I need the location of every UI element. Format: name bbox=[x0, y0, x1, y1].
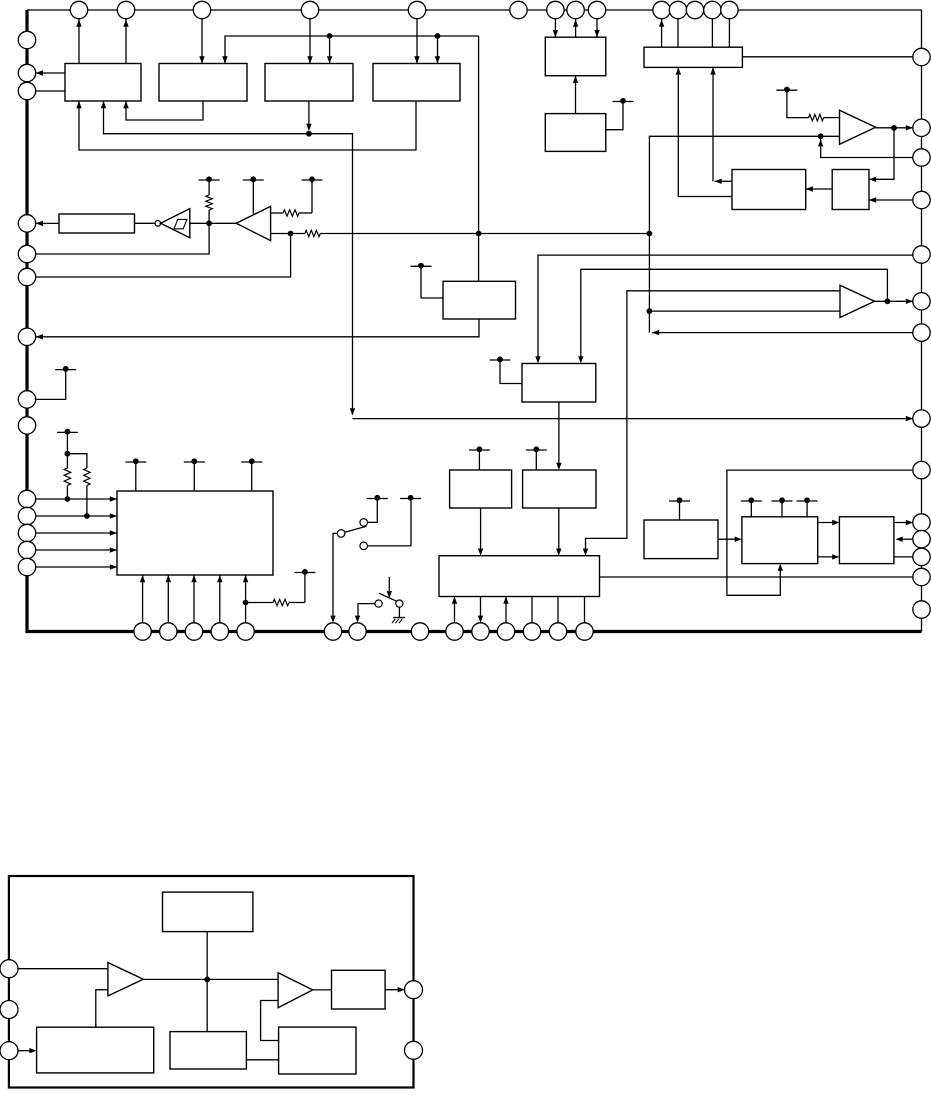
wire pin A7 to B10 bottom bbox=[36, 319, 479, 340]
block B23 bbox=[279, 1027, 356, 1074]
op-amp U1 (right-pointing) bbox=[840, 110, 876, 144]
wire pin A11 to B13 bbox=[36, 513, 117, 518]
wire amp A2 upper input bbox=[583, 291, 840, 556]
wire DL1 to schmitt ST1 bbox=[135, 222, 156, 224]
IC2 left pins bbox=[0, 960, 18, 1060]
block B2 bbox=[159, 64, 247, 102]
wire B8 to B7 via x678 bbox=[676, 67, 732, 196]
IC1 outline bottom border bbox=[25, 630, 921, 633]
wire B8 to B7 via x713 bbox=[710, 67, 732, 184]
wire pin C7 to net x649 bbox=[652, 330, 913, 335]
wire pin A6 to net y233.5 bbox=[36, 234, 291, 278]
delay block DL1 bbox=[59, 214, 135, 233]
ground symbol bbox=[392, 607, 405, 623]
amp A3 bbox=[108, 963, 143, 996]
wire B2 bottom to B1 bbox=[123, 101, 203, 120]
wire pin6 top to B4 bbox=[414, 19, 419, 64]
block B3 bbox=[265, 64, 353, 102]
wire ST1 to comparator A1 bbox=[190, 220, 236, 226]
supply taps for B18 bbox=[741, 497, 818, 516]
wire U1 output to B9 bbox=[869, 128, 894, 182]
block B9 bbox=[832, 170, 869, 210]
wire B4 bottom to B1 y150 bbox=[76, 101, 416, 150]
block B24 bbox=[332, 970, 386, 1009]
amp A2 (right-pointing) bbox=[840, 285, 875, 317]
supply tap for B15 bbox=[526, 446, 547, 470]
wire B1 to left pin A3 bbox=[36, 90, 65, 92]
IC1 left pins bbox=[18, 31, 35, 575]
wire R6 to pin wire bbox=[84, 486, 90, 519]
wire feedback to B18 bottom bbox=[727, 470, 913, 595]
resistor R5 bbox=[64, 468, 70, 486]
wire B9 to B8 bbox=[806, 186, 833, 191]
block B18 bbox=[742, 517, 818, 564]
IC1 outline top border bbox=[27, 9, 922, 11]
wire top pins to B5 bbox=[553, 19, 600, 38]
junction on y36 above B4 bbox=[435, 33, 441, 63]
wire pin A14 to B13 bbox=[36, 564, 117, 569]
wire B3 bottom stub to y133.7 bbox=[306, 101, 312, 137]
supply tap for B17 bbox=[669, 497, 690, 520]
wire B14 to B16 bbox=[478, 508, 483, 556]
block B15 bbox=[523, 470, 596, 508]
IC1 top pins bbox=[70, 1, 738, 18]
wire pin C4 to B9 bbox=[869, 197, 913, 202]
junction and resistor R7 to supply tap bbox=[243, 569, 316, 606]
wire B24 to IC2 right pin bbox=[385, 987, 405, 992]
supply tap above A1 bbox=[243, 176, 264, 214]
wire IC2 pin3 to B22 bbox=[18, 1048, 37, 1053]
wire B18 to B19 upper bbox=[818, 520, 840, 525]
block B4 bbox=[373, 64, 460, 102]
supply tap and resistor R1 at A1 output bbox=[199, 176, 220, 223]
block B11 bbox=[522, 364, 596, 403]
wire B1 to left pin A2 bbox=[36, 70, 65, 75]
wire B21 to B23 bbox=[246, 1059, 278, 1061]
comparator A1 (left-pointing) bbox=[236, 206, 270, 240]
wire A1 upper input via R2 bbox=[271, 176, 323, 216]
switch S1 selector bbox=[337, 495, 421, 550]
switch S2 to ground bbox=[375, 577, 403, 607]
wire comparator A1 lower input y233.5 bbox=[271, 231, 650, 237]
supply tap for B6 bbox=[606, 98, 634, 130]
IC1 outline left border bbox=[25, 10, 28, 632]
wire amp A4 output to B24 bbox=[313, 989, 332, 991]
wire pin A13 to B13 bbox=[36, 547, 117, 552]
wire top pins to B7 bbox=[659, 19, 730, 48]
wire op-amp U1 output to pin C2 bbox=[876, 125, 913, 131]
block B13 bbox=[117, 491, 273, 575]
supply taps above B13 bbox=[125, 458, 262, 491]
buffer output to pin A4 bbox=[36, 221, 59, 226]
wire net y36 to blocks B2 B3 B4 bbox=[222, 36, 478, 281]
block B6 bbox=[545, 114, 606, 152]
wire amp A2 lower input bbox=[649, 310, 840, 312]
wire B16 to pin C13 bbox=[600, 576, 914, 578]
supply tap resistor divider bbox=[57, 429, 87, 468]
amp A4 bbox=[278, 973, 313, 1008]
wire IC2 pin1 to amp A3 bbox=[18, 968, 108, 970]
block B16 bbox=[439, 556, 600, 597]
wire amp A3 output node bbox=[143, 932, 278, 1032]
IC1 outline right border bbox=[921, 10, 923, 632]
wire net x649 vertical bbox=[647, 133, 840, 332]
block B10 bbox=[443, 281, 516, 319]
supply tap op-amp U1 input bbox=[776, 87, 808, 118]
block B19 bbox=[839, 517, 894, 564]
wire R4 to op-amp bbox=[824, 117, 840, 119]
resistor R3 bbox=[305, 230, 320, 236]
wire S1 pole to pin D6 bbox=[330, 533, 337, 622]
wire pin C11 to B19 bbox=[896, 537, 914, 542]
schmitt trigger ST1 bbox=[155, 209, 190, 238]
IC1 right pins bbox=[913, 48, 930, 618]
wires B16 bottom to pins D9-D14 bbox=[452, 597, 585, 623]
wire B19 to pin C12 bbox=[894, 556, 913, 558]
IC2 right pins bbox=[405, 981, 423, 1060]
wire B6 to B5 bbox=[573, 76, 578, 114]
block B21 bbox=[170, 1032, 246, 1069]
block B22 bbox=[37, 1027, 154, 1073]
wire B19 to pin C10 bbox=[894, 520, 913, 525]
block B8 bbox=[732, 170, 806, 210]
amp A2 output to pin C6 bbox=[875, 298, 914, 304]
junction on y36 above B3 bbox=[327, 33, 333, 63]
wire pin5 top to B3 bbox=[307, 19, 312, 64]
wire B11 top feed 1 bbox=[535, 255, 913, 363]
wires B13 bottom to pins D1-D5 bbox=[140, 575, 248, 623]
wire amp A3 feedback from B22 bbox=[96, 990, 108, 1027]
wire S2 to pin D7 bbox=[355, 604, 375, 623]
block B17 bbox=[644, 520, 718, 559]
block B5 bbox=[545, 37, 606, 75]
resistor R4 op-amp input bbox=[809, 114, 824, 120]
wire R5 to pin wire bbox=[65, 486, 71, 502]
block B1 bbox=[65, 64, 141, 102]
wire B11 to B15 bbox=[556, 402, 561, 470]
wire pin4 top to B2 bbox=[199, 19, 204, 64]
supply tap for B14 bbox=[469, 446, 490, 470]
wire pin C3 to net x820 bbox=[818, 139, 913, 157]
supply tap for B11 bbox=[490, 356, 523, 383]
IC2 outline bbox=[9, 876, 414, 1088]
block B20 bbox=[163, 892, 253, 932]
wire B7 to right pin C1 bbox=[742, 56, 913, 58]
IC1 bottom pins bbox=[134, 623, 593, 640]
wire amp A4 feedback bbox=[261, 1001, 279, 1041]
wire B15 to B16 bbox=[556, 508, 561, 556]
wire pin A8 supply tap bbox=[36, 366, 76, 399]
wire B17 to B18 bbox=[718, 537, 742, 542]
wire pin A12 to B13 bbox=[36, 530, 117, 535]
block B7 bbox=[644, 47, 742, 67]
wire B18 to B19 lower bbox=[818, 554, 840, 559]
wire B11 top feed 2 from amp A2 output bbox=[578, 269, 887, 363]
wire B1 feedback y133.7 long run bbox=[101, 101, 913, 421]
wire pin A5 to R1 node bbox=[36, 223, 209, 254]
supply tap for B10 bbox=[411, 263, 444, 298]
resistor R6 bbox=[84, 468, 90, 486]
block B14 bbox=[450, 470, 512, 508]
wire pin3 top to B1 bbox=[123, 19, 128, 64]
wire pin2 top to B1 bbox=[76, 19, 81, 64]
wire pin A10 to B13 bbox=[36, 496, 117, 501]
